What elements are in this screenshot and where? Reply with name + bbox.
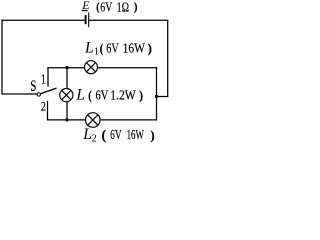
svg-text:(: ( xyxy=(96,0,100,13)
svg-text:2: 2 xyxy=(41,100,46,113)
svg-text:S: S xyxy=(30,77,36,94)
svg-text:(: ( xyxy=(100,43,104,56)
svg-text:): ) xyxy=(151,128,155,142)
svg-text:): ) xyxy=(148,41,152,55)
svg-text:6V: 6V xyxy=(110,128,122,143)
svg-text:L: L xyxy=(75,86,85,103)
svg-text:(: ( xyxy=(102,127,106,142)
svg-text:16W: 16W xyxy=(123,40,145,55)
svg-text:1: 1 xyxy=(94,47,99,58)
svg-text:1.2W: 1.2W xyxy=(110,88,136,103)
svg-text:6V: 6V xyxy=(96,87,109,103)
svg-text:16W: 16W xyxy=(127,129,144,143)
svg-text:L: L xyxy=(82,126,92,143)
svg-text:(: ( xyxy=(88,90,92,103)
svg-text:6V: 6V xyxy=(106,40,119,56)
svg-text:L: L xyxy=(84,39,94,56)
svg-text:1: 1 xyxy=(41,71,46,87)
svg-text:6V: 6V xyxy=(100,0,112,15)
svg-text:2: 2 xyxy=(92,134,97,143)
svg-text:): ) xyxy=(139,88,143,103)
svg-text:): ) xyxy=(134,1,138,14)
svg-text:1Ω: 1Ω xyxy=(117,0,130,15)
